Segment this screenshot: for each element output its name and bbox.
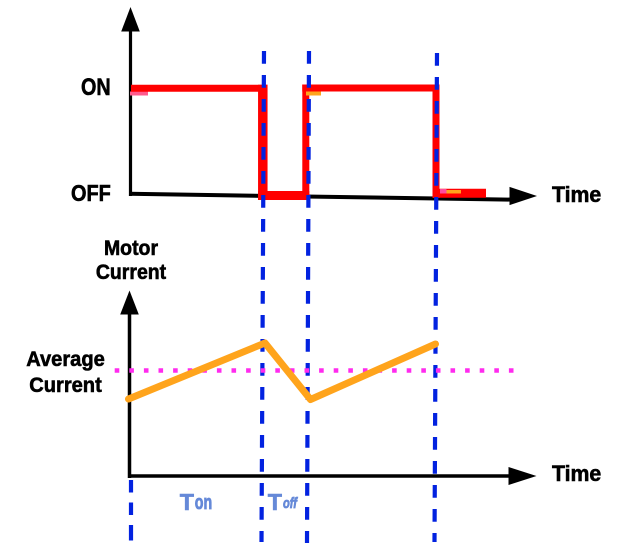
bottom chart x-axis	[128, 474, 521, 478]
label OFF	[71, 182, 111, 205]
label Average Current	[5, 346, 127, 398]
label Ton subscript on	[195, 493, 212, 514]
orange sliver at tail top edge	[447, 190, 462, 194]
red PWM high segment 1	[131, 85, 268, 92]
orange motor-current waveform	[129, 343, 436, 400]
pink sliver at tail top edge	[440, 189, 447, 194]
top chart x-axis arrowhead	[510, 187, 538, 205]
top chart y-axis arrowhead	[121, 7, 140, 32]
orange fringe under red segment 2 start	[306, 91, 321, 95]
red PWM high segment 2	[302, 85, 439, 92]
label ON	[81, 77, 111, 101]
red PWM fall 2	[433, 85, 440, 199]
blue dashed line B1	[262, 51, 265, 542]
red PWM rise	[302, 85, 309, 201]
blue dashed line B2	[307, 51, 309, 543]
bottom chart y-axis	[128, 306, 132, 478]
label Time (top chart)	[552, 184, 601, 206]
blue dashed line B4 dash c	[129, 525, 133, 541]
red PWM low tail	[433, 189, 487, 198]
bottom chart y-axis arrowhead	[120, 291, 139, 315]
red PWM fall 1	[258, 85, 268, 200]
blue dashed line B3	[435, 53, 438, 542]
red PWM low segment 1	[258, 191, 309, 200]
label Ton T	[180, 491, 194, 514]
label Motor Current	[67, 236, 194, 284]
label Time (bottom chart)	[552, 463, 601, 485]
label Toff T	[268, 491, 282, 514]
top chart x-axis (slightly sloped)	[129, 194, 511, 200]
pink fringe under red start	[130, 92, 148, 96]
blue dashed line B4 dash a	[129, 480, 133, 493]
blue dashed line B4 dash b	[129, 503, 133, 516]
bottom chart x-axis arrowhead	[509, 467, 537, 485]
magenta dotted average-current line	[115, 368, 516, 373]
top chart y-axis	[129, 22, 132, 196]
label Toff subscript off	[283, 497, 297, 512]
